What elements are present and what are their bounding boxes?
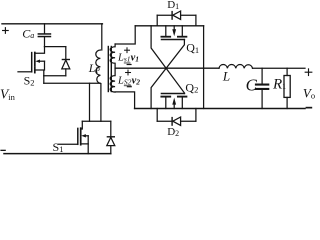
wire Ls2 bottom — [115, 92, 135, 109]
transformer secondary Ls1 — [110, 44, 115, 68]
channel segments — [80, 128, 82, 133]
wire secondary top node — [135, 25, 203, 27]
wire ground rail (output negative) — [135, 108, 305, 110]
wire right node vertical — [203, 26, 205, 109]
label - of v2 — [127, 86, 132, 87]
channel segments — [34, 53, 36, 59]
wire clamp node down — [43, 76, 45, 83]
transformer core — [107, 47, 109, 92]
svg-text:Q1: Q1 — [186, 41, 199, 55]
capacitor C (output) — [255, 68, 269, 108]
diode body of S1 — [107, 121, 115, 153]
label + of v2 — [126, 70, 131, 75]
gate lead of Q1 — [151, 40, 184, 109]
node - output terminal label — [306, 107, 313, 109]
wire center tap to output inductor — [115, 67, 219, 69]
svg-text:Q2: Q2 — [185, 80, 198, 94]
diode body of S2 — [62, 47, 70, 76]
svg-text:C: C — [246, 75, 258, 94]
gate lead — [59, 143, 78, 145]
transistor Q2 (sync rectifier) — [161, 94, 186, 109]
wire junction down to S1 drain — [89, 83, 91, 121]
inductor L (output filter) — [219, 65, 253, 69]
node + input terminal label — [3, 28, 9, 34]
transistor S2 (clamp switch MOSFET) — [18, 47, 45, 76]
gate lead — [18, 71, 32, 73]
node + output terminal label — [305, 69, 312, 76]
transistor Q1 (sync rectifier) — [151, 26, 186, 109]
source stub — [81, 144, 88, 154]
wire clamp bottom to primary — [44, 82, 100, 84]
gate bar — [31, 53, 33, 72]
svg-text:v1: v1 — [131, 53, 139, 64]
drain stub — [81, 121, 82, 129]
gate bar — [77, 128, 79, 144]
svg-text:Vin: Vin — [0, 86, 16, 102]
diode D2 — [157, 109, 196, 126]
resistor R (load) — [284, 68, 290, 108]
svg-text:Ls1: Ls1 — [117, 53, 131, 64]
wire S1 drain node — [82, 120, 111, 122]
wire S2 source to diode anode — [44, 75, 66, 77]
svg-text:D1: D1 — [167, 0, 179, 11]
capacitor Ca — [38, 24, 52, 47]
wire S2 drain to body diode top — [45, 46, 66, 48]
svg-text:LP: LP — [88, 61, 101, 75]
diode D1 — [157, 11, 196, 26]
wire output top rail — [253, 67, 306, 69]
node - input terminal label — [0, 150, 5, 151]
svg-text:D2: D2 — [167, 126, 179, 138]
label - of v1 — [127, 64, 132, 65]
transformer primary Lp — [96, 24, 102, 122]
svg-text:LS2: LS2 — [117, 75, 132, 86]
svg-text:S1: S1 — [53, 140, 64, 154]
drain stub — [35, 47, 44, 54]
svg-text:S2: S2 — [24, 73, 35, 87]
svg-text:Vo: Vo — [303, 85, 315, 100]
body arrow — [35, 60, 40, 63]
wire top input rail — [2, 23, 102, 25]
wire Ls1 top — [115, 26, 135, 44]
svg-text:Ca: Ca — [22, 26, 34, 40]
body arrow — [81, 134, 86, 137]
svg-text:L: L — [222, 69, 230, 84]
source stub — [35, 70, 44, 76]
wire riser to Q2 gate (cross connection) — [151, 26, 184, 94]
label + of v1 — [125, 48, 130, 53]
svg-text:v2: v2 — [132, 75, 141, 86]
wire bottom input rail — [4, 153, 111, 155]
transformer secondary Ls2 — [110, 68, 115, 92]
transistor S1 (main switch MOSFET) — [59, 121, 89, 153]
